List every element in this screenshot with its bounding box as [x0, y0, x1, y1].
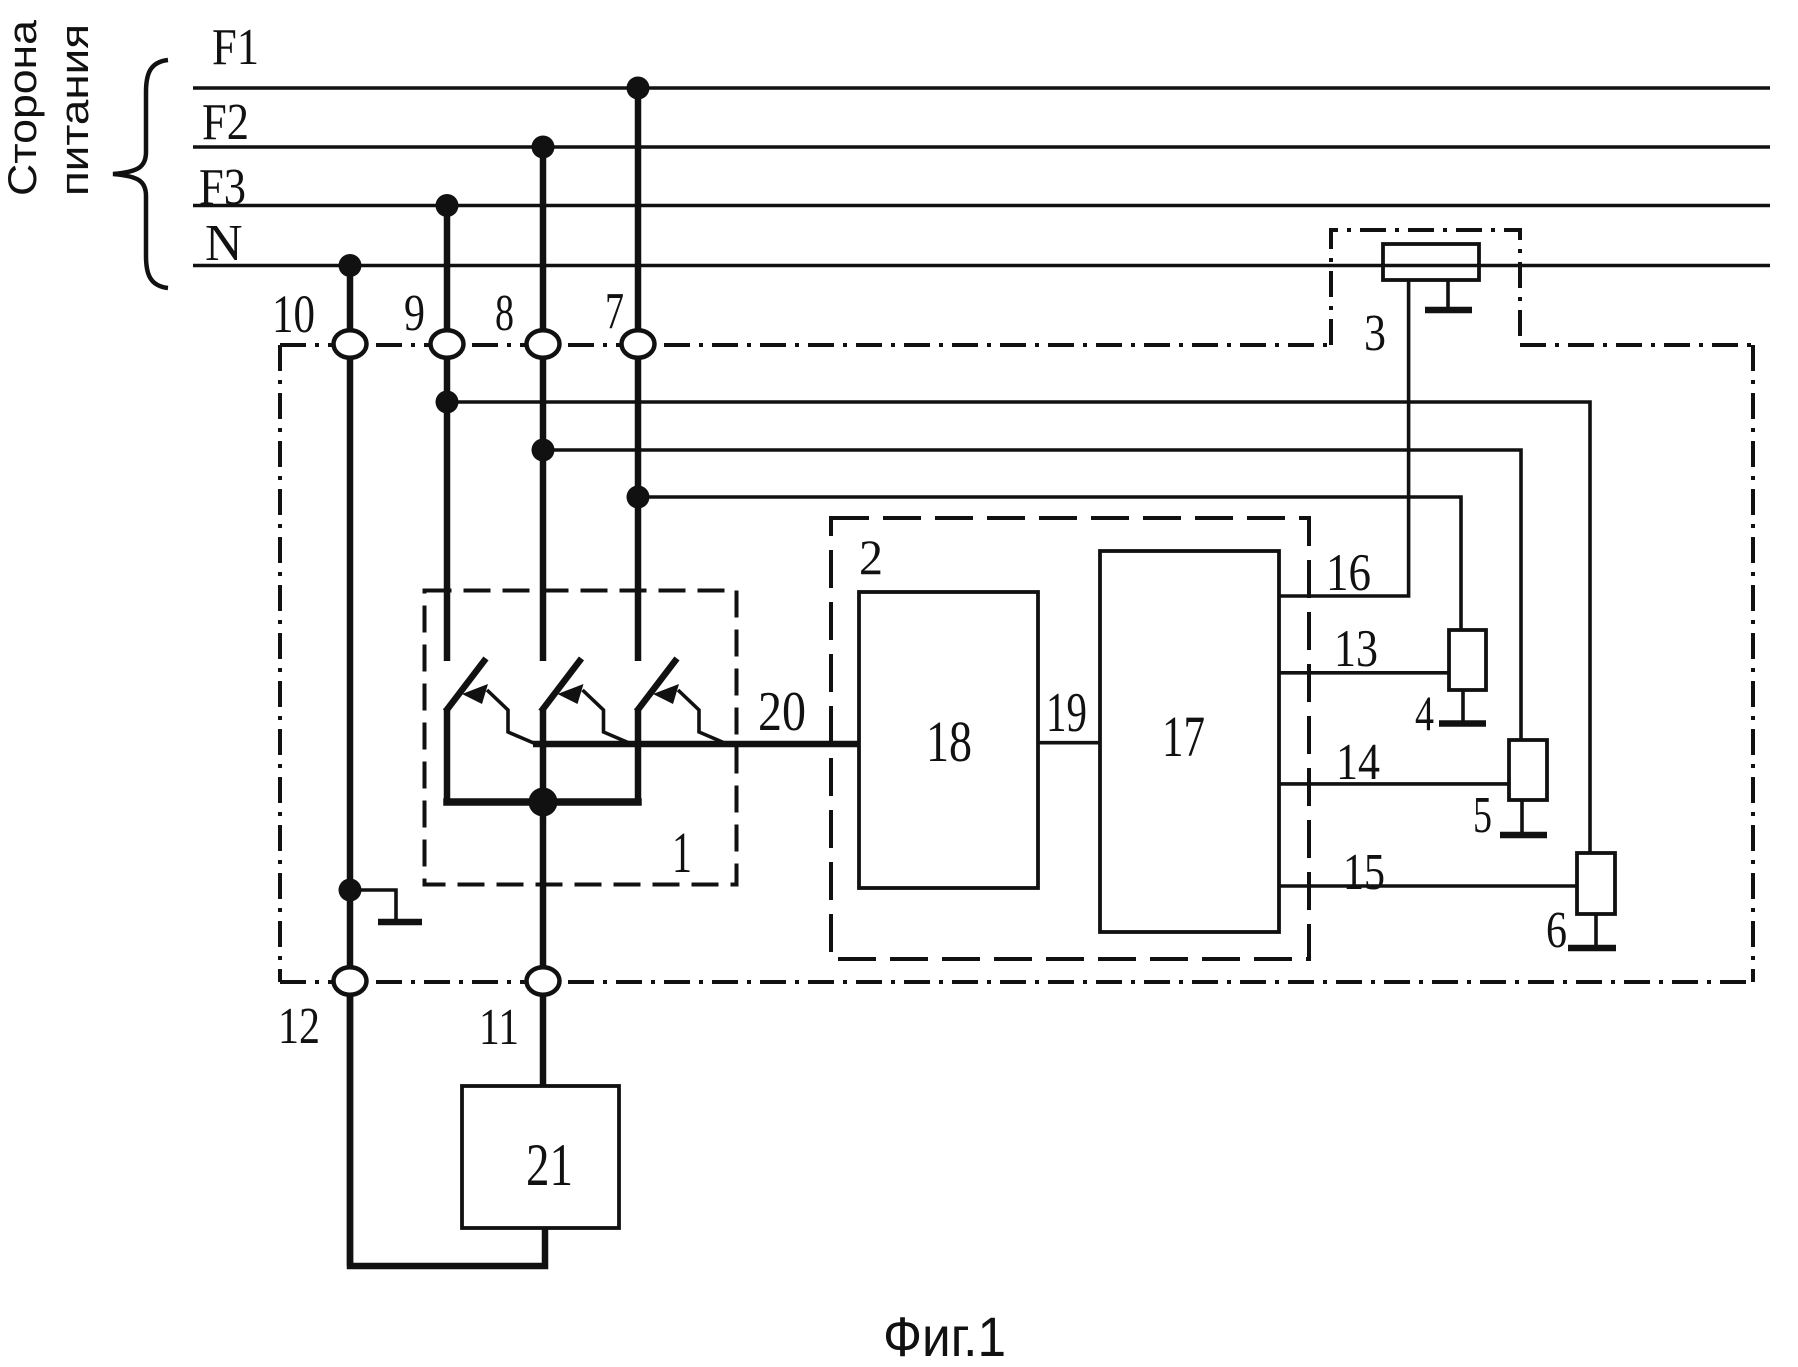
svg-text:11: 11 — [479, 999, 519, 1056]
outer dash-dot enclosure bump around component 3 — [1331, 230, 1520, 345]
svg-text:1: 1 — [672, 820, 692, 885]
svg-text:6: 6 — [1546, 902, 1567, 959]
component 3 (sensor on N line) — [1383, 244, 1479, 280]
switch S1 pole 2 blade — [543, 661, 580, 709]
outer dash-dot enclosure right edge — [1751, 345, 1755, 982]
outer dash-dot enclosure bottom edge — [280, 980, 1753, 984]
wire F1 bus line — [193, 86, 1770, 90]
wire switch pole 3 lower vertical — [635, 708, 642, 802]
svg-text:9: 9 — [404, 285, 425, 342]
outer dash-dot enclosure top edge right part — [1520, 343, 1753, 347]
curly brace power side — [113, 60, 168, 288]
node switch common bus junction — [529, 788, 558, 817]
ground bar of component 4 — [1439, 720, 1486, 727]
svg-text:F3: F3 — [199, 159, 246, 216]
svg-text:2: 2 — [859, 529, 883, 585]
svg-text:3: 3 — [1364, 305, 1386, 362]
switch S1 pole 1 linkage zigzag — [487, 690, 536, 744]
node F3 junction — [436, 194, 459, 217]
svg-text:4: 4 — [1415, 685, 1434, 741]
wire 19 connector between 18 and 17 — [1038, 741, 1100, 745]
wire A from line 9 to component 6 — [447, 402, 1590, 853]
wire line 7 vertical (F1 tap down to switch pole 3) — [635, 88, 642, 661]
svg-text:20: 20 — [758, 681, 806, 743]
block 18 — [859, 592, 1038, 888]
svg-text:12: 12 — [278, 998, 320, 1055]
wire 13 from block 17 to component 4 — [1279, 671, 1449, 675]
wire C from line 7 to component 4 — [638, 497, 1461, 630]
ground bar of line 10 tap — [378, 919, 422, 926]
wire 14 from block 17 to component 5 — [1279, 782, 1509, 786]
terminal 11 — [527, 967, 560, 995]
svg-text:8: 8 — [495, 285, 514, 342]
wire common bottom bus of switch 1 — [447, 798, 638, 806]
wire line 9 vertical (F3 tap down to switch pole 1) — [444, 206, 451, 662]
switch S1 pole 1 blade — [448, 661, 485, 709]
svg-text:N: N — [205, 215, 243, 272]
svg-text:Фиг.1: Фиг.1 — [883, 1305, 1006, 1367]
terminal 10 — [334, 330, 367, 358]
svg-text:7: 7 — [605, 283, 624, 340]
terminal 9 — [431, 330, 464, 358]
wire 15 from block 17 to component 6 — [1279, 884, 1577, 888]
node line 9 branch junction — [436, 391, 459, 414]
ground stub of component 3 — [1446, 280, 1450, 308]
svg-text:10: 10 — [272, 284, 315, 344]
wire F2 bus line — [193, 145, 1770, 149]
wire 20 drive link to block 18 — [533, 741, 859, 748]
node line 7 branch junction — [627, 486, 650, 509]
terminal 7 — [622, 330, 655, 358]
wire bottom loop from terminal 12 to block 21 — [350, 993, 545, 1266]
ground tap on line 10 — [350, 890, 396, 920]
node F2 junction — [532, 136, 555, 159]
switch S1 pole 1 arrow — [462, 684, 488, 704]
node N junction — [339, 254, 362, 277]
terminal 12 — [334, 967, 367, 995]
component 4 — [1449, 630, 1486, 690]
svg-text:Сторона: Сторона — [1, 19, 45, 196]
svg-text:21: 21 — [526, 1132, 573, 1198]
block 21 — [462, 1086, 619, 1228]
wire line 8 vertical (F2 tap down to switch pole 2) — [540, 147, 547, 661]
svg-text:питания: питания — [53, 24, 97, 196]
terminal 8 — [527, 330, 560, 358]
switch S1 pole 3 arrow — [653, 684, 679, 704]
wire switch pole 2 lower vertical down to block 21 — [540, 708, 547, 1086]
wire switch pole 1 lower vertical — [444, 708, 451, 802]
node ground tap junction — [339, 879, 362, 902]
dashed box 2 (control unit) — [831, 518, 1309, 959]
svg-text:13: 13 — [1334, 620, 1378, 678]
svg-text:F1: F1 — [212, 19, 259, 76]
ground stub of component 6 — [1594, 914, 1598, 945]
svg-text:15: 15 — [1343, 844, 1385, 901]
svg-text:16: 16 — [1326, 544, 1371, 602]
ground stub of component 5 — [1520, 800, 1524, 832]
svg-text:14: 14 — [1336, 734, 1380, 791]
wire B from line 8 to component 5 — [543, 450, 1521, 740]
wire line 10 vertical (N tap down to bottom loop) — [347, 266, 354, 1267]
svg-text:19: 19 — [1046, 682, 1087, 744]
wire F3 bus line — [193, 204, 1770, 208]
ground stub of component 4 — [1461, 690, 1465, 721]
svg-text:17: 17 — [1162, 704, 1205, 769]
component 6 — [1577, 853, 1615, 914]
outer dash-dot enclosure left edge — [278, 345, 282, 982]
ground bar of component 6 — [1568, 945, 1616, 952]
svg-text:F2: F2 — [202, 94, 249, 151]
dashed box 1 (switch unit) — [425, 591, 737, 885]
outer dash-dot enclosure top edge left part — [280, 343, 1331, 347]
block 17 — [1100, 551, 1279, 932]
switch S1 pole 2 arrow — [558, 684, 584, 704]
svg-text:18: 18 — [926, 709, 972, 774]
wire 16 from block 17 up to component 3 — [1279, 280, 1409, 596]
switch S1 pole 3 linkage zigzag — [678, 690, 727, 744]
node F1 junction — [627, 77, 650, 100]
svg-text:5: 5 — [1473, 787, 1492, 844]
component 5 — [1509, 740, 1547, 800]
node line 8 branch junction — [532, 439, 555, 462]
switch S1 pole 3 blade — [639, 661, 676, 709]
ground bar of component 5 — [1500, 832, 1547, 839]
wire N bus line — [193, 264, 1770, 268]
ground bar of component 3 — [1425, 307, 1472, 314]
switch S1 pole 2 linkage zigzag — [583, 690, 632, 744]
